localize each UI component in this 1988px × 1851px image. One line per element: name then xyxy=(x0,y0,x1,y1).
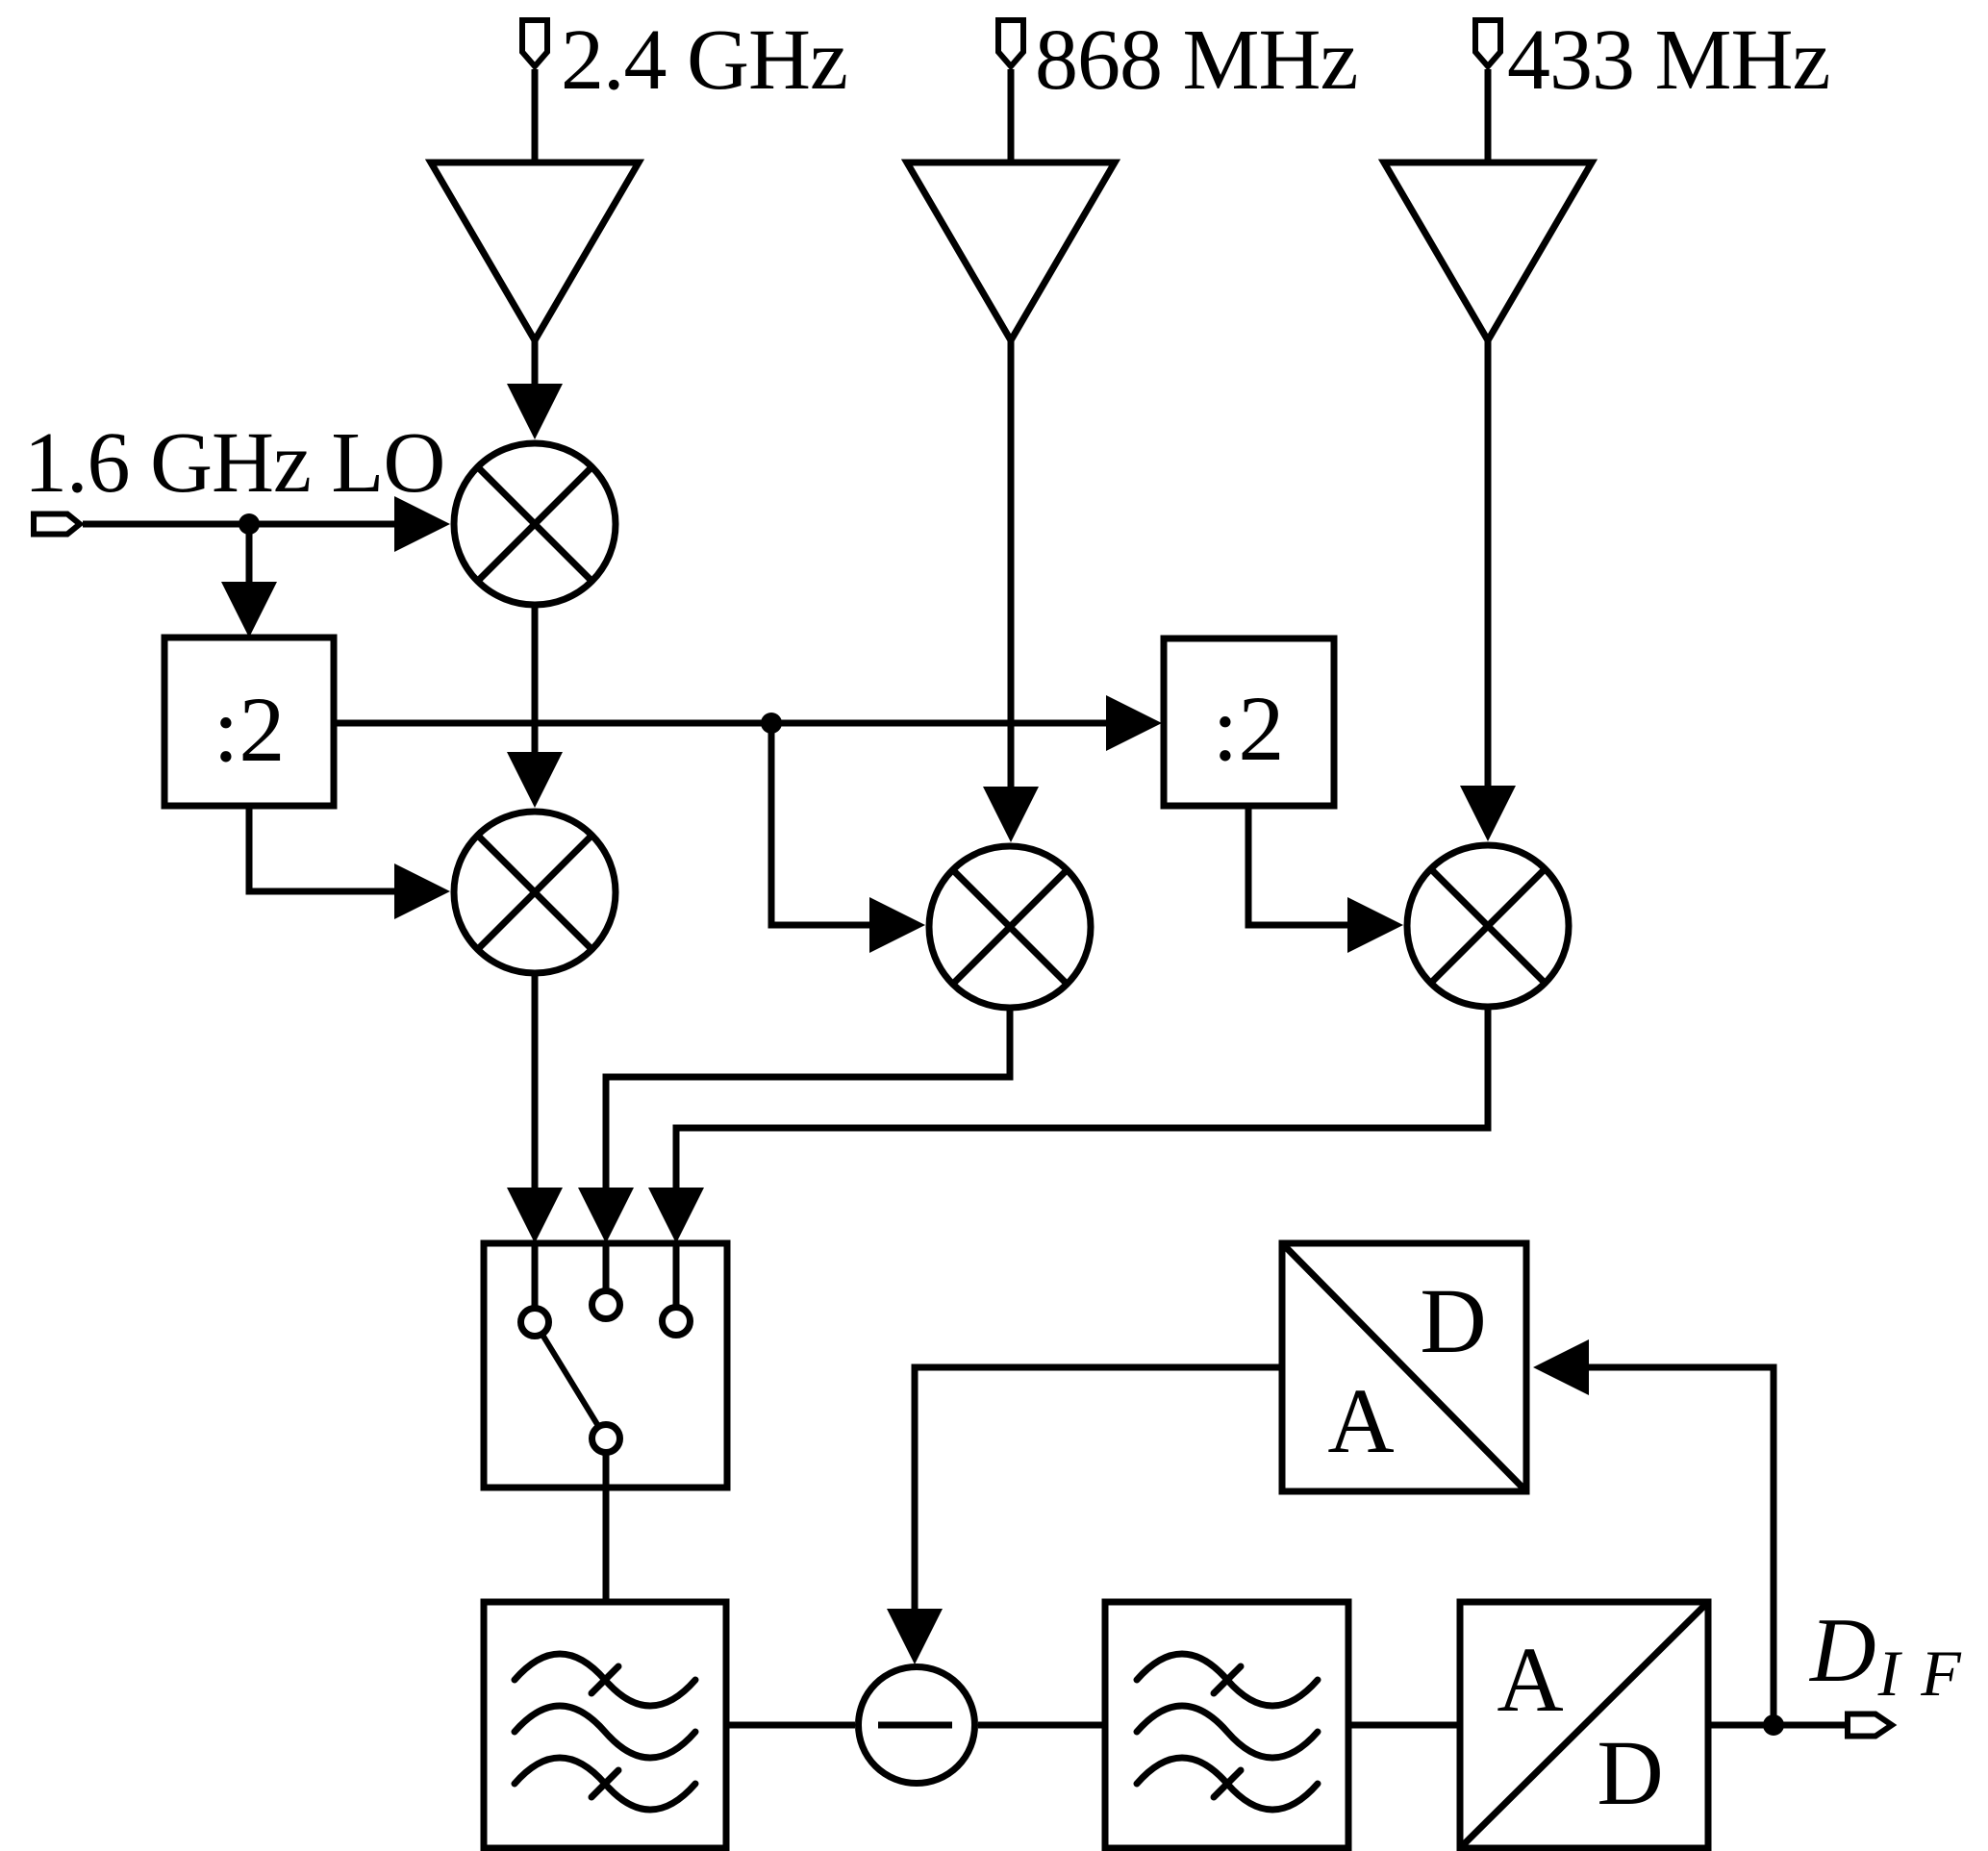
wire LO port to mixer X1 xyxy=(83,521,396,528)
arrow into divider B2 xyxy=(1106,695,1162,751)
arrow into subtractor minus input xyxy=(887,1609,943,1664)
filter F2 slash 2 xyxy=(1214,1770,1241,1797)
amplifier U2 xyxy=(907,163,1115,340)
wire P1 to amp U1 xyxy=(532,69,539,163)
wire divider B1 to mixer X2 xyxy=(249,806,394,891)
svg-text::2: :2 xyxy=(1213,677,1285,780)
arrow into switch S1 input 2 xyxy=(578,1188,634,1243)
input port P2 868 MHz xyxy=(998,20,1023,66)
svg-text:D: D xyxy=(1597,1721,1663,1824)
wire mixer X4 to switch S1 xyxy=(676,1007,1488,1189)
arrow into switch S1 input 3 xyxy=(648,1188,704,1243)
filter F2 wave 2 xyxy=(1137,1706,1318,1758)
D/A converter box xyxy=(1282,1243,1526,1491)
filter F2 wave 3 xyxy=(1137,1758,1318,1810)
switch S1 throw stub 3 xyxy=(673,1243,680,1307)
svg-text:DIF: DIF xyxy=(1808,1599,1962,1710)
wire switch S1 to filter F1 xyxy=(603,1453,610,1603)
switch S1 throw contact 3 xyxy=(663,1308,691,1336)
svg-text:A: A xyxy=(1327,1369,1394,1472)
svg-text:433 MHz: 433 MHz xyxy=(1507,13,1829,108)
arrow into switch S1 input 1 xyxy=(507,1188,563,1243)
svg-text:2.4 GHz: 2.4 GHz xyxy=(561,13,847,108)
amplifier U3 xyxy=(1384,163,1592,340)
arrow into mixer X3 LO input xyxy=(869,897,925,953)
wire mixer X3 to switch S1 xyxy=(606,1008,1010,1189)
mixer X3 xyxy=(929,846,1091,1008)
filter F1 slash 2 xyxy=(591,1770,618,1797)
wire filter F1 to subtractor xyxy=(726,1722,855,1729)
filter F2 slash 1 xyxy=(1214,1666,1241,1693)
filter F2 box xyxy=(1105,1602,1348,1848)
wire mixer X1 to mixer X2 xyxy=(532,605,539,754)
mixer X4 xyxy=(1407,845,1569,1007)
wire P3 to amp U3 xyxy=(1485,69,1492,163)
output port D_IF xyxy=(1848,1714,1892,1737)
wire filter F2 to A/D xyxy=(1348,1722,1460,1729)
arrow into mixer X3 RF input xyxy=(983,787,1039,842)
arrow into mixer X2 RF input xyxy=(507,752,563,808)
subtractor SUB1 xyxy=(859,1667,975,1784)
wire U2 to mixer X3 xyxy=(1008,340,1015,788)
filter F1 wave 3 xyxy=(515,1758,695,1810)
wire feedback junction to D/A xyxy=(1589,1367,1774,1725)
svg-text:868 MHz: 868 MHz xyxy=(1035,13,1357,108)
filter F1 wave 1 xyxy=(515,1654,695,1706)
wire A/D to output port xyxy=(1708,1722,1845,1729)
input port P1 2.4 GHz xyxy=(522,20,547,66)
divider B1 box xyxy=(164,638,334,806)
mixer X2 xyxy=(454,812,616,973)
junction LO node xyxy=(239,513,260,535)
input port P4 1.6 GHz LO xyxy=(34,514,80,535)
wire D/A to subtractor xyxy=(915,1367,1282,1611)
arrow into mixer X1 RF input xyxy=(507,384,563,439)
switch S1 throw stub 1 xyxy=(532,1243,539,1308)
wire P2 to amp U2 xyxy=(1008,69,1015,163)
arrow into mixer X4 LO input xyxy=(1347,897,1403,953)
arrow into D/A digital input xyxy=(1533,1339,1589,1395)
wire U1 to mixer X1 xyxy=(532,340,539,386)
wire divider B2 to mixer X4 xyxy=(1248,806,1347,925)
arrow into mixer X2 LO input xyxy=(394,863,450,919)
junction LO/2 node xyxy=(761,713,782,734)
svg-text:D: D xyxy=(1420,1269,1486,1372)
svg-text::2: :2 xyxy=(214,678,286,781)
junction output node xyxy=(1763,1714,1784,1736)
switch S1 lever xyxy=(542,1334,599,1426)
arrow into divider B1 xyxy=(221,582,277,638)
mixer X1 xyxy=(454,443,616,605)
A/D converter box xyxy=(1460,1602,1708,1848)
switch S1 throw contact 1 xyxy=(521,1309,549,1337)
divider B2 box xyxy=(1164,638,1334,806)
input port P3 433 MHz xyxy=(1475,20,1500,66)
wire U3 to mixer X4 xyxy=(1485,340,1492,788)
wire subtractor to filter F2 xyxy=(978,1722,1105,1729)
wire LO junction to divider B1 xyxy=(246,524,253,584)
filter F1 slash 1 xyxy=(591,1666,618,1693)
switch S1 throw contact 2 xyxy=(592,1291,620,1319)
filter F1 wave 2 xyxy=(515,1706,695,1758)
filter F1 box xyxy=(484,1602,726,1848)
arrow into mixer X4 RF input xyxy=(1460,786,1516,841)
wire LO/2 junction to mixer X3 xyxy=(771,723,869,925)
svg-text:A: A xyxy=(1497,1628,1563,1731)
wire mixer X2 to switch S1 xyxy=(532,973,539,1189)
arrow into mixer X1 LO input xyxy=(394,496,450,552)
switch S1 box xyxy=(484,1243,727,1488)
switch S1 throw stub 2 xyxy=(603,1243,610,1290)
filter F2 wave 1 xyxy=(1137,1654,1318,1706)
switch S1 common contact xyxy=(592,1425,620,1453)
amplifier U1 xyxy=(431,163,639,340)
svg-text:1.6 GHz LO: 1.6 GHz LO xyxy=(24,415,444,511)
wire divider B1 output to divider B2 xyxy=(334,720,1106,727)
